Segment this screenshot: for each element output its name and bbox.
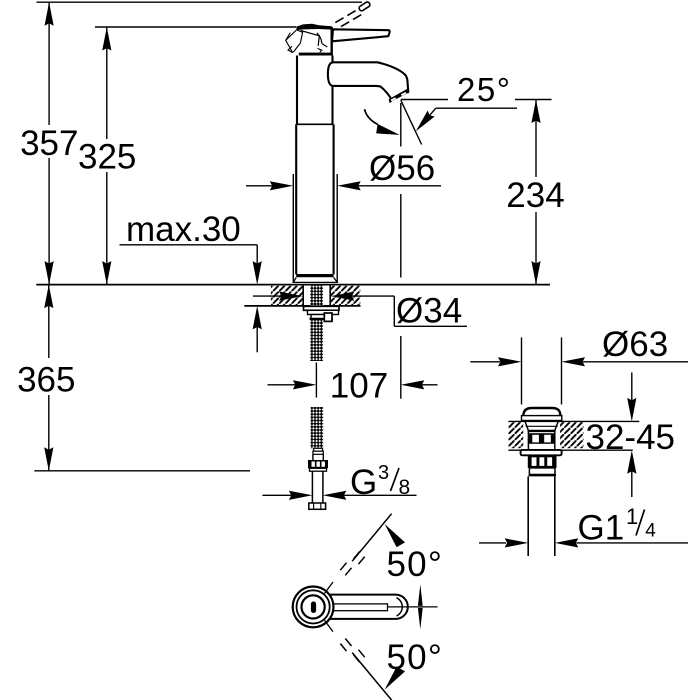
svg-text:Ø56: Ø56 [369, 149, 435, 188]
dim dia34 right arrow [331, 292, 355, 301]
svg-text:G1: G1 [578, 509, 625, 548]
raised lever tip capsule [358, 1, 370, 12]
deck hatch right of hole [331, 286, 361, 306]
dim 365 vertical line [48, 285, 50, 358]
hose tube to nut [312, 454, 314, 460]
drain deck top line [508, 420, 639, 422]
lever bar [332, 29, 390, 41]
max.30 leader underline [120, 244, 258, 246]
dim dia34 left arrow [253, 295, 283, 297]
aerator slot right [401, 92, 407, 96]
hose tube lower [311, 471, 313, 503]
hose crimp [314, 448, 323, 451]
dim 107 right arrow [401, 380, 425, 389]
dim 325 extension line [95, 26, 297, 28]
plan lever slot [332, 604, 388, 611]
deck hatch left of hole [271, 286, 303, 306]
drain body walls [527, 431, 529, 450]
drain step [529, 468, 555, 475]
50deg upper arrowhead [385, 524, 405, 547]
drain nut [528, 455, 557, 468]
lever cap bottom bar [299, 53, 333, 56]
lever cap right edge [331, 27, 333, 55]
flow arc arrow [365, 109, 378, 124]
cap face folds [293, 30, 302, 52]
max.30 lower arrow [256, 326, 258, 352]
cap crinkle left [286, 30, 297, 53]
washer [304, 306, 340, 310]
drain tailpipe [527, 476, 529, 556]
25deg horizontal reference lines [401, 99, 448, 101]
svg-text:50°: 50° [387, 545, 444, 584]
max.30 upper arrow [256, 245, 258, 266]
drain deck hatch [508, 422, 523, 448]
dim 325 vertical line [106, 27, 108, 139]
outlet plane diagonal [401, 100, 422, 144]
hose centreline [315, 363, 317, 398]
key slot [311, 602, 316, 613]
50deg lower line [352, 653, 391, 700]
dim dia56 right arrow [337, 181, 361, 190]
svg-text:234: 234 [506, 176, 564, 215]
threaded shank in hole [310, 286, 323, 307]
circle tick upper [325, 582, 334, 594]
butterfly arrows [418, 584, 423, 606]
svg-text:max.30: max.30 [126, 210, 241, 249]
dim 107 left arrow [268, 384, 297, 386]
dim 365 bottom extension line [34, 470, 250, 472]
plan centreline [388, 606, 438, 608]
deck top line [36, 284, 550, 286]
aerator band [389, 89, 410, 103]
svg-text:325: 325 [78, 138, 136, 177]
circle tick lower [325, 620, 334, 632]
braided hose upper [310, 320, 323, 361]
drain cap flange [522, 416, 562, 421]
faucet column upper [296, 56, 298, 125]
spout outlet vertical extension [400, 103, 402, 147]
deck hole edge lines [302, 285, 304, 306]
drain cap dome [523, 408, 560, 416]
drain washer [521, 450, 562, 455]
svg-text:107: 107 [330, 367, 388, 406]
base skirt [293, 277, 337, 282]
dim 234 vertical [535, 100, 537, 178]
raised lever dashes [335, 8, 360, 22]
25deg leader arrow [425, 108, 436, 121]
svg-text:Ø63: Ø63 [602, 325, 668, 364]
plan view middle circle [297, 590, 330, 623]
svg-text:50°: 50° [387, 638, 444, 677]
svg-text:25°: 25° [457, 71, 511, 108]
svg-text:3: 3 [378, 462, 389, 484]
dia56 extension lines [292, 174, 294, 282]
overflow slot band [528, 433, 554, 444]
collar [311, 315, 332, 319]
side tab [324, 313, 332, 321]
plan inner circle [302, 595, 325, 618]
dim 357 vertical line [48, 2, 50, 125]
drain extension lines [521, 337, 523, 404]
drain deck bottom line [508, 449, 632, 451]
svg-text:1: 1 [626, 504, 638, 529]
50deg upper line [352, 514, 391, 562]
svg-text:Ø34: Ø34 [396, 292, 462, 331]
spout [328, 62, 408, 100]
dim G1 1/4 [479, 542, 506, 544]
svg-text:365: 365 [17, 361, 75, 400]
braided hose lower [311, 407, 324, 448]
drain body inner line [526, 425, 558, 427]
svg-text:4: 4 [645, 521, 656, 542]
column joint line [297, 123, 333, 125]
svg-text:G: G [350, 463, 377, 502]
hose hex nut [308, 460, 328, 468]
dim 32-45 upper [631, 372, 633, 401]
svg-text:32-45: 32-45 [586, 418, 676, 457]
dim dia56 left arrow [246, 185, 274, 187]
aerator slot left [391, 97, 397, 101]
hose end fitting [309, 503, 326, 509]
plan lever outline [320, 595, 408, 619]
aerator white gap [392, 94, 408, 102]
dim dia63 [470, 361, 500, 363]
drain body band [528, 430, 556, 432]
25deg leader shelf [436, 107, 517, 109]
dim G3/8 arrows [262, 494, 291, 496]
plan view outer circle [293, 587, 334, 628]
deck bottom line [244, 305, 360, 307]
plan lever end inner arc [397, 598, 403, 616]
mounting nut [308, 310, 339, 314]
svg-text:357: 357 [20, 124, 78, 163]
lever cap top bar [296, 24, 332, 30]
drain body taper [525, 421, 529, 431]
column base bar [296, 274, 333, 277]
50deg lower arrowhead [385, 667, 405, 690]
faucet column lower [295, 124, 297, 274]
dim 32-45 lower [627, 450, 636, 474]
dia34 leader [393, 296, 395, 326]
dim 357 extension line top [37, 1, 363, 3]
